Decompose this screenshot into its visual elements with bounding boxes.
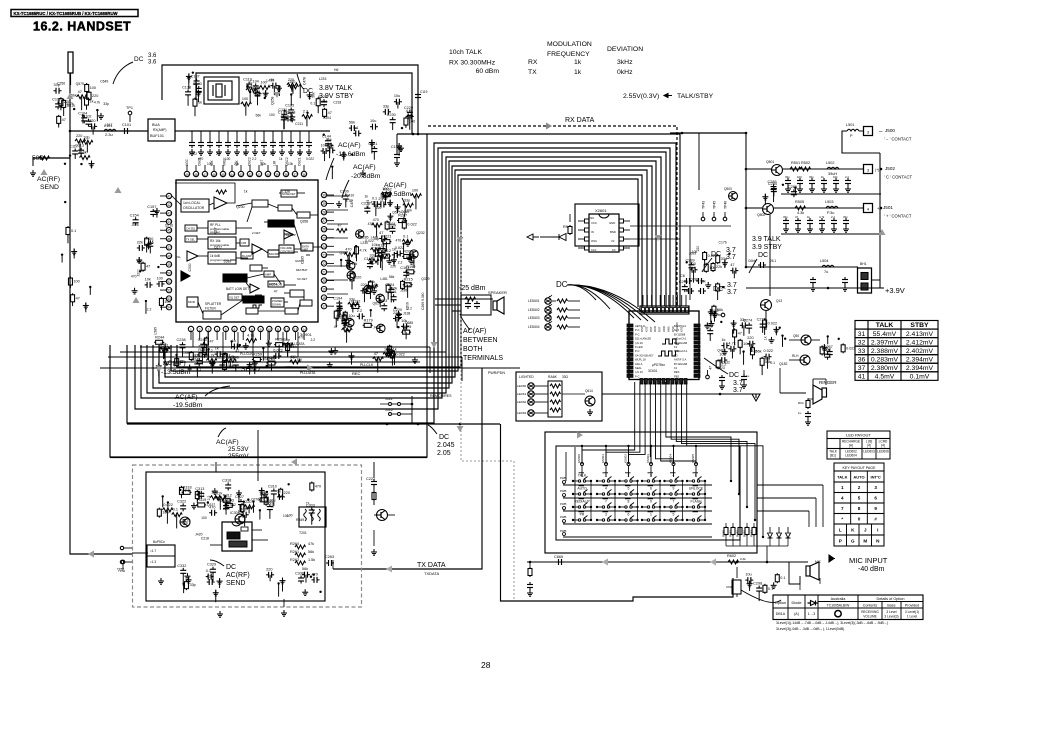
junction xyxy=(266,365,268,367)
svg-text:33: 33 xyxy=(858,348,866,355)
svg-text:K3: K3 xyxy=(612,248,616,252)
svg-text:J138: J138 xyxy=(403,312,410,316)
svg-text:#: # xyxy=(874,517,877,522)
svg-text:RXD: RXD xyxy=(653,326,657,332)
svg-text:KS603: KS603 xyxy=(646,454,650,463)
wire xyxy=(194,107,196,117)
IC X2601 pin L1 xyxy=(585,219,590,223)
transistor Q503 xyxy=(729,192,738,201)
arrow send xyxy=(88,551,94,558)
wire battery feed xyxy=(746,266,858,268)
svg-text:4.7k: 4.7k xyxy=(181,521,188,525)
junction xyxy=(636,480,638,482)
svg-text:5: 5 xyxy=(628,486,630,490)
junction xyxy=(590,493,592,495)
svg-text:LED61: LED61 xyxy=(517,392,527,396)
junction xyxy=(230,340,232,342)
wire mic loop xyxy=(789,562,800,584)
svg-text:R651: R651 xyxy=(729,529,733,537)
svg-text:1k: 1k xyxy=(279,157,283,161)
op-amp A2 xyxy=(187,251,198,261)
svg-text:TP43: TP43 xyxy=(702,201,706,209)
wire tx bottom stub xyxy=(283,599,285,607)
svg-text:56k: 56k xyxy=(255,113,261,117)
capacitor C280 xyxy=(721,343,729,349)
wire xyxy=(291,85,293,92)
resistor R101 xyxy=(85,83,89,93)
ground xyxy=(345,257,351,263)
IC U201 body xyxy=(176,180,318,322)
wire bus u1 xyxy=(140,346,430,348)
switch SW34 xyxy=(647,506,649,508)
resistor R326 xyxy=(240,503,244,513)
arrow a8 xyxy=(307,365,313,372)
svg-text:7: 7 xyxy=(673,499,675,503)
block power save xyxy=(271,298,284,307)
capacitor C276 xyxy=(760,322,766,330)
svg-text:33p: 33p xyxy=(721,257,727,261)
svg-text:C298: C298 xyxy=(753,582,762,586)
resistor R215 xyxy=(403,283,413,287)
wire xyxy=(259,510,261,519)
capacitor C278 xyxy=(728,346,736,352)
wire xyxy=(773,194,775,196)
junction xyxy=(784,337,786,339)
capacitor C101 xyxy=(122,128,130,134)
svg-text:45: 45 xyxy=(167,229,171,233)
svg-text:1→3: 1→3 xyxy=(808,612,816,616)
speaker SP1 xyxy=(493,301,497,310)
svg-text:0.2k: 0.2k xyxy=(740,557,746,561)
svg-text:LED62: LED62 xyxy=(517,400,527,404)
wire xyxy=(404,326,406,332)
ground xyxy=(843,226,849,232)
svg-text:47: 47 xyxy=(795,215,799,219)
svg-text:DOWN: DOWN xyxy=(272,303,281,307)
junction xyxy=(641,506,643,508)
capacitor C202 xyxy=(393,315,401,321)
squiggle waveform xyxy=(250,305,262,308)
svg-text:RX DATA: RX DATA xyxy=(565,117,595,124)
svg-text:2.412mV: 2.412mV xyxy=(906,339,934,346)
ground xyxy=(805,419,811,425)
capacitor C130 xyxy=(191,131,193,140)
svg-text:LED602: LED602 xyxy=(528,308,540,312)
svg-text:R260: R260 xyxy=(290,542,299,546)
junction xyxy=(337,309,339,311)
capacitor C129 xyxy=(285,116,293,122)
wire xyxy=(396,318,398,327)
resistor R118 xyxy=(241,102,252,106)
wire top outer xyxy=(162,65,418,134)
IC X2601 body xyxy=(589,214,619,252)
resistor R214 xyxy=(337,229,348,233)
capacitor C288 xyxy=(690,267,698,273)
svg-text:OSC1: OSC1 xyxy=(298,157,302,166)
junction xyxy=(636,519,638,521)
svg-text:22k: 22k xyxy=(216,491,222,495)
svg-text:100: 100 xyxy=(797,175,802,179)
svg-text:RECEIVING: RECEIVING xyxy=(861,610,879,614)
wire xyxy=(393,355,395,365)
svg-text:PWB: PWB xyxy=(560,515,567,519)
svg-text:10k: 10k xyxy=(81,151,87,155)
junction xyxy=(779,327,781,329)
capacitor C121 xyxy=(281,112,287,120)
capacitor C297 xyxy=(745,577,753,583)
ground xyxy=(768,337,774,343)
svg-text:);/A.19: );/A.19 xyxy=(635,370,643,374)
table option xyxy=(773,595,923,620)
ground xyxy=(527,590,533,596)
svg-text:60 dBm: 60 dBm xyxy=(476,68,500,75)
svg-text:PLLCLK: PLLCLK xyxy=(240,352,253,356)
svg-text:4: 4 xyxy=(605,486,607,490)
svg-text:10k: 10k xyxy=(833,175,838,179)
svg-text:8: 8 xyxy=(628,499,630,503)
svg-text:2.045: 2.045 xyxy=(437,442,455,449)
svg-text:LED PAYOUT: LED PAYOUT xyxy=(846,433,871,438)
svg-text:J195: J195 xyxy=(400,289,407,293)
svg-text:100: 100 xyxy=(73,280,79,284)
svg-text:C6: C6 xyxy=(680,274,685,278)
svg-text:P-C: P-C xyxy=(635,349,640,353)
wire leader between xyxy=(460,314,470,330)
arrow RX DATA xyxy=(546,123,552,130)
switch SW36 xyxy=(692,506,694,508)
junction xyxy=(681,132,684,135)
svg-text:C144: C144 xyxy=(322,134,331,138)
wire leader 3.9 xyxy=(749,259,757,273)
LED LED601 xyxy=(545,298,551,304)
svg-text:33p: 33p xyxy=(751,349,757,353)
switch SW41 xyxy=(578,519,580,521)
wire xyxy=(226,500,228,507)
ground xyxy=(833,186,839,192)
svg-text:56k: 56k xyxy=(311,92,315,98)
resistor R221 xyxy=(381,240,391,244)
wire xyxy=(262,348,264,360)
wire xyxy=(89,287,91,295)
svg-text:SEAL: SEAL xyxy=(635,366,642,370)
mic line xyxy=(527,561,808,563)
svg-text:BH1: BH1 xyxy=(860,262,867,266)
capacitor C50 xyxy=(785,178,791,186)
ringer speaker SP2 xyxy=(822,388,827,397)
resistor R312 xyxy=(222,498,232,502)
svg-text:[4]: [4] xyxy=(867,444,871,448)
svg-text:R653: R653 xyxy=(743,529,747,537)
junction xyxy=(157,266,159,268)
wire xyxy=(265,90,267,97)
junction xyxy=(323,134,325,136)
key matrix bottom rail xyxy=(563,536,712,538)
junction xyxy=(641,519,643,521)
wire xyxy=(373,154,375,160)
svg-text:47: 47 xyxy=(167,246,171,250)
IC IC30X body xyxy=(222,522,252,551)
svg-text:AFA.A: AFA.A xyxy=(635,362,643,366)
svg-text:56k: 56k xyxy=(308,550,314,554)
inverter A3 xyxy=(181,271,190,281)
resistor R266 xyxy=(841,343,845,353)
resistor R505 xyxy=(795,206,806,210)
svg-text:3: 3 xyxy=(207,328,209,332)
block amp xyxy=(264,271,274,277)
resistor R180 xyxy=(401,280,405,290)
svg-text:0.1: 0.1 xyxy=(403,234,408,238)
jumper J111 xyxy=(389,403,392,406)
wire xyxy=(203,355,205,358)
svg-text:C193: C193 xyxy=(366,200,370,208)
svg-text:FILTER: FILTER xyxy=(205,307,216,311)
capacitor C309 xyxy=(277,494,285,500)
svg-text:L481: L481 xyxy=(380,277,388,281)
junction xyxy=(331,165,333,167)
wire xyxy=(187,97,189,105)
ground xyxy=(259,487,265,493)
block compander xyxy=(268,220,294,227)
wire xyxy=(827,336,829,344)
wire bus line 10 xyxy=(177,179,638,367)
svg-text:L585: L585 xyxy=(154,327,158,335)
capacitor C255 xyxy=(219,359,225,367)
resistor R210 xyxy=(343,311,347,321)
capacitor C108 xyxy=(89,123,97,129)
capacitor C217 xyxy=(372,201,380,207)
capacitor C59 xyxy=(819,218,825,226)
svg-text:47: 47 xyxy=(209,339,213,343)
capacitor C126 xyxy=(321,99,327,107)
svg-text:H6: H6 xyxy=(334,68,338,72)
svg-text:' + ' CONTACT: ' + ' CONTACT xyxy=(884,214,912,219)
svg-text:Base: Base xyxy=(887,604,895,608)
junction xyxy=(618,506,620,508)
svg-text:C60: C60 xyxy=(726,585,732,589)
wire xyxy=(252,502,254,513)
svg-text:C6bb: C6bb xyxy=(748,259,756,263)
wire xyxy=(176,515,178,529)
junction xyxy=(145,300,147,302)
ground xyxy=(191,503,197,509)
svg-text:47: 47 xyxy=(274,289,278,293)
capacitor C194 xyxy=(336,301,342,309)
resistor R262 xyxy=(295,561,306,565)
svg-text:AUTO: AUTO xyxy=(577,486,587,490)
junction xyxy=(64,163,66,165)
svg-text:2.388mV: 2.388mV xyxy=(871,348,899,355)
wire xyxy=(145,301,147,314)
capacitor C645 xyxy=(758,262,766,268)
wire speaker top xyxy=(452,298,493,300)
junction xyxy=(64,201,66,203)
squiggle clock 1 xyxy=(662,339,679,344)
junction xyxy=(192,71,194,73)
svg-text:C649: C649 xyxy=(100,80,108,84)
antenna ANT1 xyxy=(68,52,73,73)
wire J500 loop xyxy=(842,131,880,153)
svg-text:[4]: [4] xyxy=(881,444,885,448)
junction xyxy=(659,493,661,495)
resistor R203 xyxy=(411,194,422,198)
svg-text:Q597: Q597 xyxy=(340,251,348,255)
diode D682 xyxy=(787,527,789,533)
svg-text:CLK: CLK xyxy=(591,248,597,252)
ground xyxy=(807,226,813,232)
wire xyxy=(225,511,227,514)
ground xyxy=(387,200,393,206)
junction xyxy=(340,259,342,261)
junction xyxy=(614,519,616,521)
wire xyxy=(203,350,205,353)
switch SW22 xyxy=(602,493,604,495)
svg-text:3.7: 3.7 xyxy=(726,254,736,261)
svg-text:Q501: Q501 xyxy=(766,160,774,164)
svg-text:J277: J277 xyxy=(223,507,230,511)
svg-text:J: J xyxy=(864,528,867,533)
svg-text:SQ DET: SQ DET xyxy=(229,296,240,300)
svg-text:DB1A: DB1A xyxy=(776,612,786,616)
wire xyxy=(146,246,148,253)
resistor R212 xyxy=(381,254,391,258)
wire y131 RX feed xyxy=(70,130,148,132)
TX module inner box xyxy=(146,472,325,601)
wire battery bottom xyxy=(746,287,872,289)
svg-text:33p: 33p xyxy=(843,215,848,219)
svg-text:6: 6 xyxy=(874,496,877,501)
svg-text:47: 47 xyxy=(76,296,80,300)
transistor Q50 xyxy=(801,335,811,345)
svg-text:45: 45 xyxy=(221,173,225,177)
wire xyxy=(374,250,376,257)
switch SW35 xyxy=(670,506,672,508)
wire REC line xyxy=(100,367,520,369)
arrow left diode xyxy=(527,234,533,240)
junction xyxy=(182,582,184,584)
capacitor C52 xyxy=(809,178,815,186)
junction xyxy=(596,493,598,495)
svg-text:47: 47 xyxy=(708,366,712,370)
svg-text:2.05: 2.05 xyxy=(437,450,451,457)
wire xyxy=(231,341,233,348)
capacitor C131 xyxy=(200,131,202,140)
resistor R302 xyxy=(162,508,173,512)
capacitor C268 xyxy=(825,352,831,360)
wire row3 xyxy=(746,207,762,209)
ground xyxy=(198,149,204,155)
resistor R275 xyxy=(733,328,737,338)
svg-text:RINGER: RINGER xyxy=(819,380,837,385)
resistor R299 xyxy=(763,584,767,594)
svg-text:0.1: 0.1 xyxy=(173,508,178,512)
svg-text:7: 7 xyxy=(242,328,244,332)
capacitor C642 xyxy=(743,370,745,374)
junction xyxy=(762,536,764,538)
svg-text:C322: C322 xyxy=(177,499,186,503)
wire y424 power line xyxy=(127,423,500,425)
block prog counter 1 xyxy=(208,221,236,234)
jumper J112 xyxy=(389,413,392,416)
svg-text:33p: 33p xyxy=(189,583,195,587)
svg-text:PWB: PWB xyxy=(560,502,567,506)
svg-text:C194: C194 xyxy=(333,297,342,301)
arrow grey down xyxy=(457,426,464,432)
resistor R242 xyxy=(206,358,217,362)
svg-text:220: 220 xyxy=(321,100,327,104)
junction xyxy=(417,133,420,136)
wire bh1 right xyxy=(872,280,881,288)
wire xyxy=(405,332,407,339)
ground xyxy=(712,311,718,317)
table talk-stby xyxy=(855,321,938,330)
svg-text:6: 6 xyxy=(650,486,652,490)
wire xyxy=(397,102,399,109)
svg-text:K1: K1 xyxy=(674,345,678,349)
wire xyxy=(306,117,308,127)
wire xyxy=(724,260,726,268)
block prog counter 3 xyxy=(208,252,236,264)
capacitor C511 xyxy=(843,218,849,226)
wire xyxy=(363,291,365,302)
svg-text:VCC: VCC xyxy=(591,221,597,225)
svg-text:24: 24 xyxy=(322,245,326,249)
svg-text:6: 6 xyxy=(628,512,630,516)
svg-text:44: 44 xyxy=(230,173,234,177)
resistor R253 xyxy=(223,352,227,362)
svg-text:RES: RES xyxy=(674,370,680,374)
wire xyxy=(734,337,736,345)
junction xyxy=(259,509,261,511)
wire row2 gnd rail xyxy=(781,193,881,195)
resistor R250 xyxy=(274,343,284,347)
svg-text:L503: L503 xyxy=(825,200,833,204)
svg-text:LED604: LED604 xyxy=(845,454,857,458)
wire xyxy=(91,161,93,169)
svg-text:0.1: 0.1 xyxy=(290,356,295,360)
ground xyxy=(412,357,418,363)
resistor R131 xyxy=(288,85,299,89)
svg-text:3.6: 3.6 xyxy=(148,53,157,59)
svg-text:33p: 33p xyxy=(785,175,790,179)
key matrix row rails xyxy=(563,484,712,486)
svg-text:42: 42 xyxy=(248,173,252,177)
IC X2601 notch xyxy=(599,214,609,218)
wire xyxy=(317,106,319,113)
IC U201 top pins xyxy=(184,171,189,176)
wire xyxy=(709,336,711,341)
svg-text:AN0: AN0 xyxy=(666,326,670,332)
svg-text:0.1: 0.1 xyxy=(770,361,775,365)
resistor R249 xyxy=(290,360,301,364)
capacitor C269 xyxy=(719,357,727,363)
key matrix column drivers xyxy=(581,463,584,466)
wire speaker dotted tail xyxy=(435,298,452,300)
svg-text:programmable: programmable xyxy=(210,258,230,262)
resistor R304 xyxy=(264,496,268,506)
svg-text:DC: DC xyxy=(439,434,449,441)
wire xyxy=(762,330,764,333)
IC IC30X marks xyxy=(227,532,240,539)
svg-text:C316: C316 xyxy=(222,478,231,482)
wire y569 left xyxy=(332,560,334,569)
junction xyxy=(782,184,784,186)
capacitor C642 xyxy=(741,374,747,382)
capacitor C142 xyxy=(299,131,301,140)
transistor Q166 xyxy=(347,271,355,279)
svg-text:ANT/F S.A: ANT/F S.A xyxy=(674,358,687,362)
arrow mic 1 xyxy=(602,559,608,566)
svg-text:52: 52 xyxy=(167,289,171,293)
